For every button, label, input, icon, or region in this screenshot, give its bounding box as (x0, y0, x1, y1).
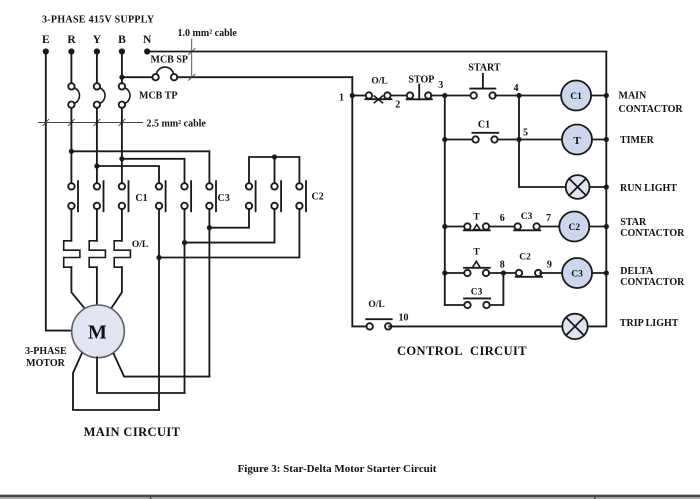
junction dot B to MCB SP (119, 75, 124, 80)
svg-text:6: 6 (500, 213, 505, 224)
wire R down to MCB TP (70, 52, 72, 84)
junction dot motor terminal V2 (182, 240, 187, 245)
contactor C1 pole 2 (94, 181, 104, 211)
wire T to C3 NC (489, 226, 514, 228)
wire C3 pole3 bottom junction down (208, 209, 210, 376)
svg-text:R: R (67, 34, 76, 46)
wire C1 pole3 to overload 3 (121, 209, 123, 241)
wire motor lead bottom-left (73, 354, 159, 410)
junction dot rung2 feeder (442, 137, 447, 142)
svg-text:C1: C1 (570, 92, 582, 102)
svg-text:3: 3 (438, 80, 443, 91)
svg-text:C3: C3 (471, 287, 483, 297)
breaker MCB TP pole B (119, 83, 130, 108)
contactor C2 pole 2 (271, 181, 281, 211)
node N terminal dot (144, 48, 150, 54)
svg-text:10: 10 (399, 312, 409, 323)
svg-text:8: 8 (500, 260, 505, 271)
contactor C2 pole 1 (246, 181, 256, 211)
svg-text:T: T (473, 213, 480, 223)
contactor C1 pole 3 (119, 181, 129, 211)
svg-text:O/L: O/L (132, 240, 148, 250)
wire link C3 pole2 to C2 pole2 (185, 209, 275, 242)
svg-text:1: 1 (339, 92, 344, 103)
wire Y down to MCB TP (96, 52, 98, 84)
junction dot star bus (272, 154, 277, 159)
coil C3 (562, 258, 592, 288)
node 3 dot (442, 93, 447, 98)
svg-text:STOP: STOP (408, 74, 434, 85)
dimension line 2.5 mm2 cable (38, 119, 142, 125)
contact C3 bypass NO (464, 298, 490, 308)
node 1 dot (350, 93, 355, 98)
svg-text:CONTACTOR: CONTACTOR (619, 104, 684, 115)
contact O/L alarm NO (366, 319, 391, 329)
svg-text:3-PHASE 415V SUPPLY: 3-PHASE 415V SUPPLY (42, 15, 155, 26)
svg-text:N: N (143, 34, 152, 46)
junction dot rail rung5 (604, 270, 609, 275)
node Y terminal dot (94, 48, 100, 54)
wire node 10 to trip lamp (389, 325, 562, 327)
svg-text:O/L: O/L (371, 77, 387, 87)
label STAR CONTACTOR (620, 217, 685, 239)
wire rung5 from feeder (445, 272, 465, 274)
node R terminal dot (68, 48, 74, 54)
junction dot rung5 feeder (442, 270, 447, 275)
junction dot motor terminal W2 (207, 225, 212, 230)
overload heater 2 (89, 241, 105, 267)
wire T NC to node 8 (489, 272, 515, 274)
svg-text:STAR: STAR (620, 217, 647, 228)
svg-text:TRIP LIGHT: TRIP LIGHT (620, 318, 679, 329)
lamp TRIP (562, 314, 587, 339)
junction dot motor terminal U2 (156, 255, 161, 260)
svg-text:2.5 mm² cable: 2.5 mm² cable (147, 118, 207, 129)
wire star bridge bus of C2 (249, 157, 299, 183)
junction dot B bus (119, 156, 124, 161)
svg-text:5: 5 (523, 127, 528, 138)
contact C2 interlock NC (516, 270, 542, 277)
junction dot rail run light (604, 184, 609, 189)
node 5 dot (516, 137, 521, 142)
svg-text:CONTACTOR: CONTACTOR (620, 277, 685, 288)
node E terminal dot (43, 48, 49, 54)
wire rung2 from feeder (445, 139, 473, 141)
junction dot rail rung1 (604, 93, 609, 98)
node B terminal dot (119, 48, 125, 54)
contact C3 interlock NC (514, 223, 540, 230)
wire C3 pole2 bottom junction down (184, 209, 186, 393)
contact T timed NC (464, 261, 490, 276)
junction dot rung4 feeder (442, 224, 447, 229)
svg-text:T: T (473, 248, 480, 258)
svg-text:MOTOR: MOTOR (26, 358, 65, 369)
contact C1 aux NO (472, 133, 498, 143)
label MAIN CONTACTOR (619, 91, 684, 115)
wire STOP to node 3 (431, 95, 470, 97)
svg-text:MAIN CIRCUIT: MAIN CIRCUIT (84, 425, 181, 439)
dimension line 1.0 mm2 cable (189, 39, 196, 80)
overload heater 1 (64, 241, 80, 267)
wire START to coil C1 (495, 95, 561, 97)
control right rail (588, 52, 607, 327)
wire C2 NC to coil C3 (540, 272, 562, 274)
wire C1 pole1 to overload 1 (70, 209, 72, 241)
wire bypass branch right (490, 273, 504, 305)
junction dot Y bus (94, 163, 99, 168)
wire motor lead bottom-right (114, 354, 210, 377)
wire C3 pole1 bottom junction down (158, 209, 160, 410)
node 4-5 vertical to run light (519, 96, 566, 188)
wire coil C1 to right rail (591, 95, 606, 97)
breaker MCB TP pole R (68, 83, 79, 108)
svg-text:C2: C2 (312, 192, 324, 203)
wire overload 3 to motor (111, 267, 122, 309)
wire overload 1 to motor (71, 267, 85, 309)
wire bus Y to C3 pole 1 (97, 166, 159, 183)
svg-text:CONTACTOR: CONTACTOR (620, 228, 685, 239)
wire C3 NC to coil C2 (540, 226, 560, 228)
wire B down to MCB TP (121, 52, 123, 84)
wire link C3 pole3 to C2 pole1 (209, 209, 249, 228)
node 4 dot (516, 93, 521, 98)
contact O/L trip NC (365, 92, 391, 103)
wire coil C3 to rail (592, 272, 606, 274)
svg-text:C3: C3 (218, 193, 230, 204)
wire motor lead bottom-middle (97, 357, 185, 393)
coil T timer (562, 125, 592, 155)
wire bus B to C3 pole 2 (122, 159, 185, 183)
wire coil C2 to rail (589, 226, 606, 228)
svg-text:C1: C1 (478, 120, 490, 131)
wire E earth to motor frame (46, 52, 72, 331)
contactor C3 pole 3 (206, 181, 216, 211)
svg-text:DELTA: DELTA (620, 266, 654, 277)
wire link C3 pole1 to C2 pole3 (159, 209, 299, 257)
wire N to control top rail (147, 51, 606, 53)
svg-text:9: 9 (547, 260, 552, 271)
svg-text:C2: C2 (519, 253, 531, 263)
svg-text:Figure 3: Star-Delta Motor Sta: Figure 3: Star-Delta Motor Starter Circu… (238, 463, 437, 475)
svg-text:O/L: O/L (368, 300, 384, 310)
contactor C3 pole 2 (181, 181, 191, 211)
svg-text:MAIN: MAIN (619, 91, 648, 102)
coil C1 (561, 81, 591, 111)
node 3 vertical feeder (444, 96, 446, 306)
svg-text:C3: C3 (521, 212, 533, 222)
overload heater 3 (114, 241, 130, 267)
svg-text:C2: C2 (568, 223, 580, 233)
svg-text:1.0 mm² cable: 1.0 mm² cable (178, 28, 238, 39)
breaker MCB TP pole Y (94, 83, 105, 108)
wire C1 pole2 to overload 2 (96, 209, 98, 241)
svg-text:3-PHASE: 3-PHASE (25, 346, 67, 357)
wire rung4 from feeder (445, 226, 464, 228)
motor M (72, 305, 125, 358)
junction dot rail rung2 (604, 137, 609, 142)
svg-text:E: E (42, 34, 50, 46)
svg-text:RUN LIGHT: RUN LIGHT (620, 183, 677, 194)
svg-text:MCB SP: MCB SP (151, 55, 189, 66)
svg-text:C3: C3 (571, 269, 583, 279)
pushbutton STOP NC (407, 85, 432, 100)
svg-text:2: 2 (395, 99, 400, 110)
label DELTA CONTACTOR (620, 266, 685, 288)
svg-text:C1: C1 (135, 193, 147, 204)
junction dot R bus (69, 149, 74, 154)
wire Y from MCB TP to contactor C1 pole 2 (96, 108, 98, 183)
wire B from MCB TP to contactor C1 pole 3 (121, 108, 123, 183)
wire bypass branch left (445, 304, 465, 306)
wire coil T to rail (592, 139, 606, 141)
svg-text:TIMER: TIMER (620, 135, 655, 146)
breaker MCB SP (122, 67, 352, 80)
svg-text:START: START (468, 63, 501, 74)
wire overload 2 to motor (96, 267, 98, 305)
contactor C3 pole 1 (156, 181, 166, 211)
wire bus R to C3 pole 3 (71, 151, 209, 183)
coil C2 (559, 212, 589, 242)
node 8 dot (501, 270, 506, 275)
svg-text:MCB TP: MCB TP (139, 91, 177, 102)
wire R from MCB TP to contactor C1 pole 1 (70, 108, 72, 183)
contactor C2 pole 3 (296, 181, 306, 211)
control circuit left rail (352, 77, 366, 326)
contactor C1 pole 1 (68, 181, 78, 211)
svg-text:T: T (573, 135, 581, 147)
wire C2 pole 2 to star bus (274, 157, 276, 183)
wire C1 aux to coil T (498, 139, 562, 141)
page rule bottom (0, 495, 700, 499)
svg-text:CONTROL CIRCUIT: CONTROL CIRCUIT (397, 344, 527, 358)
wire node1 to OL contact (352, 95, 366, 97)
junction dot rail rung4 (604, 224, 609, 229)
wire lamp RUN to rail (590, 186, 607, 188)
svg-text:7: 7 (546, 213, 551, 224)
svg-text:M: M (88, 322, 107, 344)
svg-text:Y: Y (93, 34, 102, 46)
pushbutton START NO (470, 74, 496, 99)
lamp RUN (566, 175, 590, 199)
svg-text:4: 4 (514, 83, 519, 94)
label 3-PHASE MOTOR (25, 346, 67, 369)
svg-text:B: B (118, 34, 126, 46)
wire OL to STOP (391, 95, 406, 97)
contact T timed NO (464, 223, 490, 230)
